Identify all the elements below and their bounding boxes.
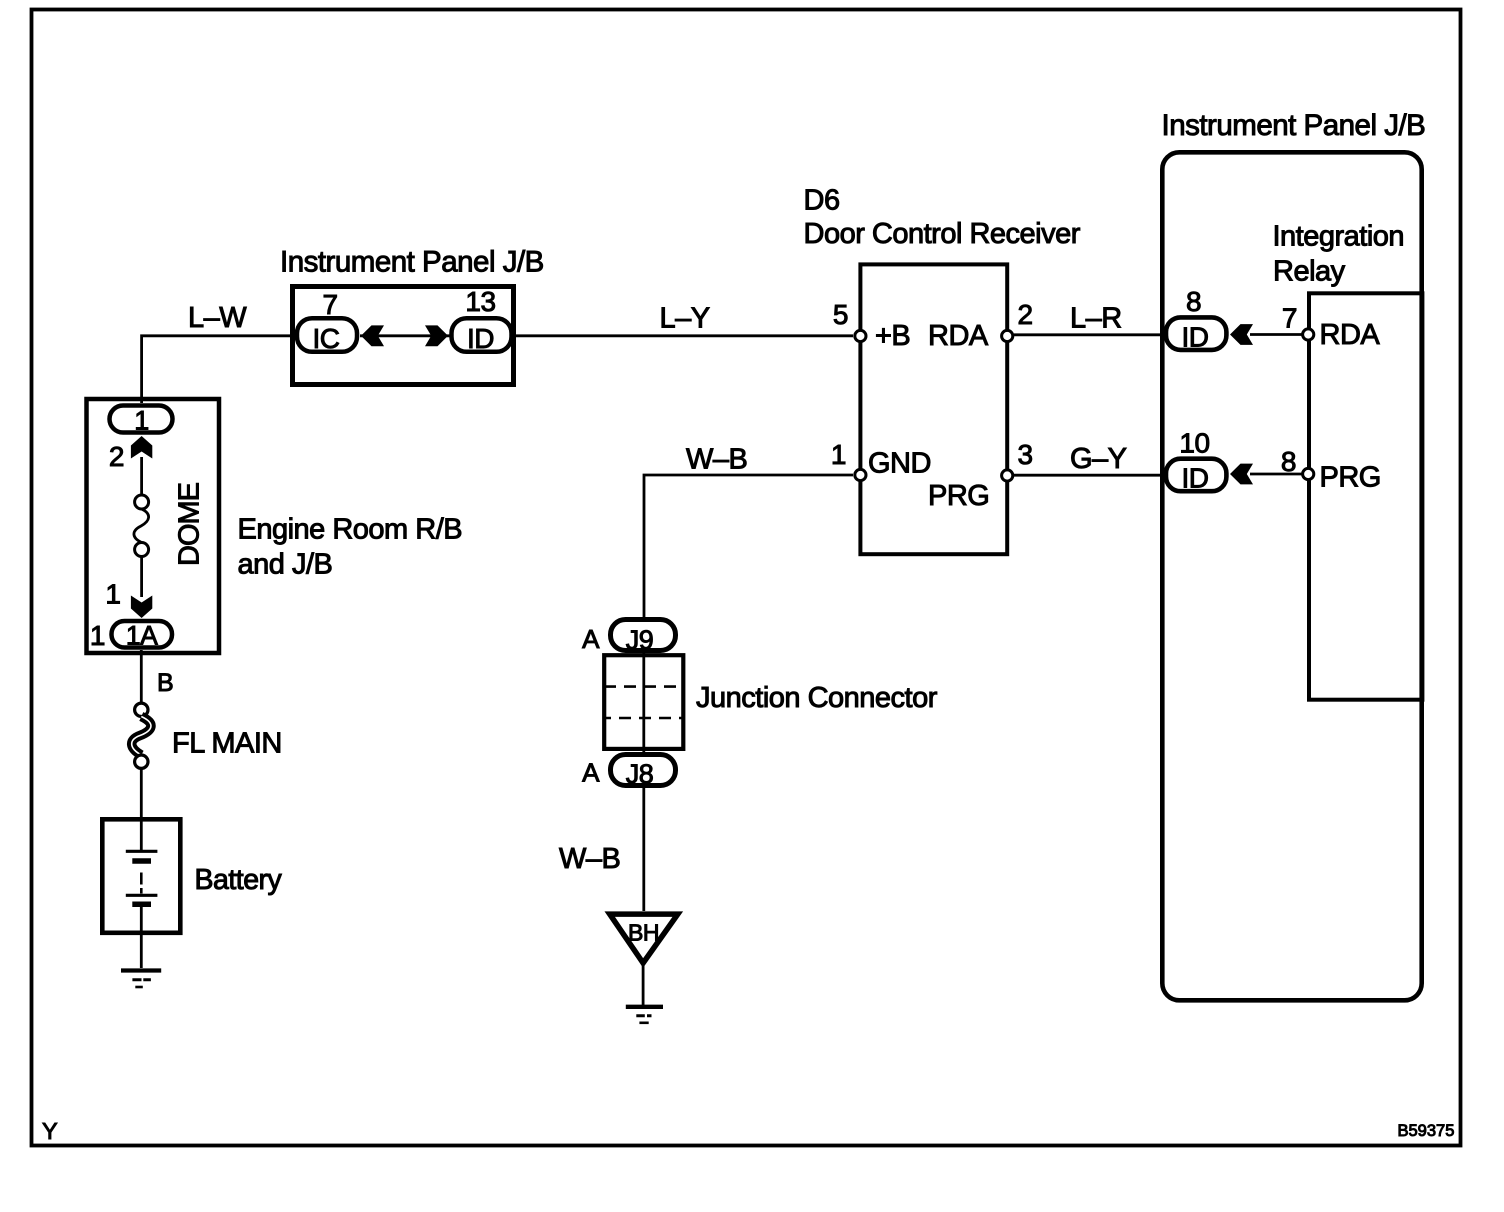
svg-text:B: B — [157, 669, 173, 697]
svg-text:3: 3 — [1018, 439, 1033, 470]
connector ID — [452, 318, 512, 352]
wire L-R : from pin 2 to ID(8) — [1014, 333, 1165, 336]
pin 7 of Integration Relay — [1303, 329, 1314, 340]
svg-text:1: 1 — [831, 439, 846, 470]
wire ID(8) to pin 7 — [1250, 333, 1303, 336]
svg-text:L–Y: L–Y — [660, 303, 710, 335]
junction connector dashed line 2 — [604, 717, 685, 720]
connector 1A — [112, 621, 173, 648]
Engine Room R/B box (DOME) — [87, 399, 220, 653]
wire through junction connector — [642, 653, 645, 753]
svg-text:8: 8 — [1281, 446, 1296, 477]
wire ID(10) to pin 8 — [1250, 473, 1303, 476]
arrow into ID (pointing right) — [425, 325, 448, 346]
svg-text:7: 7 — [322, 289, 337, 320]
svg-text:Y: Y — [42, 1118, 58, 1144]
arrow down (inside DOME box) — [131, 596, 152, 619]
wire below BH triangle — [642, 961, 645, 1006]
svg-text:1: 1 — [134, 406, 149, 436]
svg-text:2: 2 — [1018, 299, 1033, 330]
wire G-Y : from pin 3 to ID(10) — [1014, 474, 1165, 477]
connector J8 — [611, 755, 676, 786]
pin 8 of Integration Relay — [1303, 468, 1314, 479]
svg-text:Junction Connector: Junction Connector — [696, 682, 938, 714]
svg-text:Instrument Panel J/B: Instrument Panel J/B — [1162, 109, 1426, 142]
right Instrument Panel J/B rounded box — [1162, 152, 1421, 1000]
battery plate short 2 — [132, 902, 151, 908]
battery plate long 2 — [126, 894, 158, 897]
svg-text:PRG: PRG — [1320, 461, 1381, 493]
ground (below battery) — [121, 968, 161, 972]
svg-text:and J/B: and J/B — [238, 549, 333, 581]
wire L-Y : from ID to D6 pin 5 — [514, 334, 853, 337]
fuse DOME: wavy element — [134, 509, 149, 543]
D6 Door Control Receiver box — [860, 264, 1007, 554]
battery middle dashes — [140, 873, 143, 885]
svg-text:ID: ID — [467, 323, 494, 354]
wire to battery — [140, 769, 143, 820]
svg-text:Engine Room R/B: Engine Room R/B — [238, 514, 463, 546]
wire GND : from pin 1 left then down to J9 — [644, 475, 853, 620]
svg-text:5: 5 — [833, 299, 848, 330]
svg-text:Instrument Panel J/B: Instrument Panel J/B — [280, 246, 544, 279]
svg-text:Battery: Battery — [195, 864, 283, 896]
pin 3 of D6 — [1002, 470, 1013, 481]
wire L-W : from DOME pin up and right to IC — [142, 336, 297, 403]
svg-text:B59375: B59375 — [1398, 1122, 1455, 1140]
svg-text:J9: J9 — [626, 625, 654, 655]
wire to pin 1 arrow — [140, 557, 143, 598]
svg-text:13: 13 — [465, 286, 495, 317]
svg-text:1: 1 — [90, 620, 105, 651]
fuse DOME: bottom circle — [135, 543, 149, 557]
svg-text:J8: J8 — [626, 759, 654, 789]
junction block box (top-left Instrument Panel J/B) — [293, 287, 514, 385]
svg-text:D6: D6 — [804, 184, 840, 216]
svg-text:W–B: W–B — [559, 843, 620, 875]
ground (below BH) — [626, 1005, 663, 1009]
connector 1 (top of DOME box) — [110, 406, 173, 433]
battery internal wire bottom — [140, 907, 143, 968]
svg-text:Door Control Receiver: Door Control Receiver — [804, 218, 1081, 250]
svg-text:10: 10 — [1179, 427, 1209, 458]
ground triangle BH — [610, 914, 678, 963]
fusible link FL MAIN: thick wavy element — [132, 717, 151, 756]
wire inside DOME box — [140, 457, 143, 495]
svg-text:Integration: Integration — [1273, 221, 1405, 253]
svg-text:ID: ID — [1182, 463, 1209, 494]
connector ID (10) — [1166, 459, 1226, 492]
pin 5 of D6 — [855, 330, 866, 341]
Integration Relay box — [1309, 293, 1422, 699]
svg-text:DOME: DOME — [174, 482, 206, 566]
svg-text:2: 2 — [109, 441, 124, 472]
svg-text:A: A — [582, 624, 600, 654]
svg-text:RDA: RDA — [1320, 319, 1381, 351]
svg-text:FL MAIN: FL MAIN — [172, 727, 282, 759]
svg-text:Relay: Relay — [1273, 256, 1346, 288]
svg-text:L–W: L–W — [188, 302, 247, 334]
svg-text:G–Y: G–Y — [1070, 443, 1127, 475]
fusible link FL MAIN: top circle — [135, 703, 148, 716]
svg-text:1A: 1A — [126, 621, 158, 651]
svg-text:L–R: L–R — [1070, 303, 1122, 335]
svg-text:RDA: RDA — [928, 320, 989, 352]
battery box — [102, 819, 180, 933]
battery internal wire top — [140, 821, 143, 850]
wire between connector IC and ID — [360, 334, 450, 337]
svg-text:A: A — [582, 758, 600, 788]
arrow up (inside DOME box) — [131, 436, 152, 459]
svg-text:BH: BH — [628, 920, 659, 946]
svg-text:IC: IC — [313, 323, 340, 354]
arrow into IC (pointing left) — [361, 325, 384, 346]
svg-text:ID: ID — [1182, 322, 1209, 353]
connector ID (8) — [1166, 317, 1226, 350]
pin 1 of D6 — [855, 469, 866, 480]
fuse DOME: top circle — [135, 495, 149, 509]
svg-text:1: 1 — [105, 579, 120, 610]
connector J9 — [611, 620, 676, 651]
wire from 1A down — [140, 650, 143, 703]
connector IC — [297, 318, 357, 352]
svg-text:GND: GND — [868, 448, 931, 480]
wire W-B down to ground — [642, 787, 645, 911]
svg-text:7: 7 — [1282, 303, 1297, 334]
junction connector box — [604, 655, 683, 749]
fusible link FL MAIN: bottom circle — [135, 755, 148, 768]
svg-text:PRG: PRG — [928, 480, 989, 512]
arrow into ID(10) (pointing left) — [1230, 464, 1253, 485]
svg-text:8: 8 — [1186, 286, 1201, 317]
battery plate long 1 — [126, 850, 158, 853]
svg-text:+B: +B — [875, 320, 910, 352]
svg-text:W–B: W–B — [686, 444, 747, 476]
pin 2 of D6 — [1002, 330, 1013, 341]
junction connector dashed line 1 — [604, 685, 685, 688]
battery plate short 1 — [132, 858, 151, 864]
arrow into ID(8) (pointing left) — [1230, 324, 1253, 345]
